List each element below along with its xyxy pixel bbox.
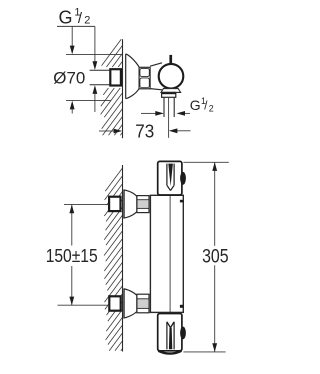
label G 1/2 (shower outlet)	[190, 96, 214, 113]
dimension G1/2 thread arrows (x=95.4)	[94, 26, 96, 61]
bottom union square	[109, 296, 120, 310]
dimension 305	[183, 161, 228, 163]
wall surface line (front view)	[122, 165, 124, 352]
dimension 150±15	[64, 204, 109, 206]
dimension Ø70 arrows	[71, 27, 73, 47]
wall hatching (top view)	[101, 39, 123, 135]
svg-text:G: G	[190, 97, 201, 113]
thermostat body circle (top view)	[159, 64, 184, 89]
bottom cap arc	[158, 351, 181, 354]
top escutcheon cone	[124, 190, 137, 218]
svg-text:305: 305	[202, 246, 229, 267]
dimension 73	[99, 130, 114, 132]
neck between nut and body (top view)	[150, 63, 162, 66]
wall hatching (front view)	[104, 168, 122, 351]
svg-text:G: G	[59, 7, 73, 27]
top handle (temperature)	[158, 161, 182, 195]
bottom union nut	[137, 294, 149, 313]
outlet pipe G1/2 (top view)	[163, 97, 165, 117]
svg-text:150±15: 150±15	[46, 245, 98, 266]
wall surface line (top view)	[122, 39, 124, 138]
mixer body	[150, 195, 183, 312]
label G 1/2 (wall supply)	[59, 7, 91, 28]
svg-text:Ø70: Ø70	[53, 68, 85, 87]
union nut (top view)	[139, 67, 150, 89]
pipe centerline extension	[168, 97, 170, 138]
top union square	[109, 197, 120, 211]
bottom escutcheon cone	[124, 289, 137, 318]
outlet flare below circle	[161, 89, 181, 93]
supply nipple G1/2 (top view)	[90, 69, 111, 71]
safe-stop button	[180, 172, 186, 185]
outlet G1/2 arrows	[141, 112, 156, 114]
svg-text:2: 2	[84, 14, 90, 26]
wall union square (top view)	[110, 69, 121, 85]
underline	[57, 25, 95, 27]
escutcheon cone (top view)	[126, 54, 139, 99]
svg-text:2: 2	[209, 104, 214, 114]
svg-text:73: 73	[135, 121, 154, 142]
top union nut	[137, 196, 149, 213]
outlet band	[162, 92, 176, 97]
handle index tick	[169, 55, 172, 64]
bottom handle (flow)	[158, 314, 182, 351]
